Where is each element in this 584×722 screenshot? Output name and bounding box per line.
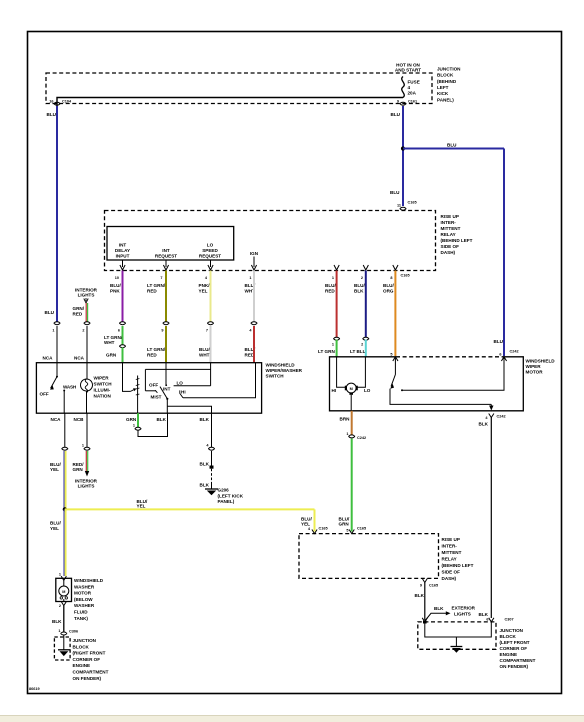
svg-text:YEL: YEL [199,289,208,294]
svg-text:7: 7 [160,276,162,280]
svg-text:BLU: BLU [494,339,504,344]
fuse F4 20A [402,77,405,98]
svg-text:C242: C242 [510,350,519,354]
wiper mode contact plate top bar [145,368,210,370]
relay IGN terminal label and lead [250,251,259,270]
svg-text:6: 6 [118,329,120,333]
wire BLU/ORG vertical to wiper motor pin 5 [394,271,396,357]
label INTERIOR LIGHTS destination [75,479,98,489]
svg-text:BLU/: BLU/ [110,283,121,288]
wire BLU/PNK label [110,283,121,294]
junction block JB2 dashed outline [418,622,496,649]
JB3 internal wire [63,635,65,650]
wiper mode contact plate left drop [144,369,146,390]
svg-text:1: 1 [249,276,251,280]
washer motor armature [59,580,69,601]
connector pin 1 symbol on BLU/RED right column [332,337,340,346]
svg-text:SIDE OF: SIDE OF [441,244,460,249]
svg-text:JUNCTION: JUNCTION [73,638,97,643]
wire BLU/WHT vertical [253,271,255,322]
wire NCA black stub into switch (lamp) [86,326,88,363]
rheostat resistor element [136,376,140,414]
wire BLU/RED lower label [245,347,256,358]
rheostat wiper arrow [131,389,135,391]
svg-text:OFF: OFF [40,392,49,397]
washer switch arm [51,377,57,389]
svg-text:BRN: BRN [340,417,351,422]
wire RED/GRN label [73,462,85,472]
svg-text:LT GRN/: LT GRN/ [147,283,166,288]
wire BLU/YEL two-tone vertical to washer motor [64,509,66,576]
svg-text:NCA: NCA [51,417,62,422]
connector C306 pin 1 [58,629,78,635]
svg-text:RELAY: RELAY [442,557,457,562]
wire BLU/BLK vertical [365,271,367,338]
svg-text:BLU/: BLU/ [50,521,61,526]
svg-text:REQUEST: REQUEST [199,254,221,259]
JB2 left pin square [422,618,427,622]
wire BLU/YEL drop to relay 2 pin 4 [314,509,316,531]
svg-text:CORNER OF: CORNER OF [73,657,101,662]
svg-text:9: 9 [420,584,422,588]
svg-text:1: 1 [133,424,135,428]
relay bottom pin numbers [115,276,393,280]
svg-text:WINDSHIELD: WINDSHIELD [266,363,296,368]
svg-text:C242: C242 [497,415,506,419]
wire BLU/WHT label (IGN feed) [245,283,256,294]
wire BLU/PNK vertical [122,271,124,322]
wire BLK from relay 2 to junction block [424,583,426,621]
label WIPER SWITCH ILLUMINATION [94,376,113,399]
svg-text:ENGINE: ENGINE [73,663,91,668]
wire BLU/YEL label below node [50,521,61,532]
svg-text:LEFT: LEFT [437,85,449,90]
wire BLU/GRN vertical to relay 2 [351,439,353,532]
washer motor pin 1 chevron [59,573,67,581]
wiper motor M armature [345,383,358,395]
switch common to ground link [167,399,211,413]
relay 2 pin 9 chevron [420,578,438,587]
svg-text:5: 5 [346,529,348,533]
ground G206 symbol [205,484,218,495]
branch to exterior lights [425,613,447,621]
wire BLK washer ground [63,606,65,632]
wire NCA black stub into switch (left) [56,326,58,363]
svg-text:INT: INT [162,248,170,253]
wire BLU/RED vertical [336,271,338,338]
svg-text:GRN: GRN [126,417,137,422]
connector row: pin 1 symbol on BLU [52,322,60,333]
svg-text:2: 2 [361,343,363,347]
svg-text:DASH): DASH) [442,576,457,581]
svg-text:BLU/: BLU/ [354,283,365,288]
label WINDSHIELD WIPER MOTOR [526,359,556,375]
wire bus inside JB1 [57,98,403,107]
svg-text:BLU/: BLU/ [325,283,336,288]
washer WASH contact and lead to bottom [63,390,65,414]
wiper switch illumination lamp [81,363,93,414]
svg-text:REQUEST: REQUEST [155,254,177,259]
svg-text:ILLUMI-: ILLUMI- [94,388,111,393]
svg-text:1: 1 [82,444,84,448]
svg-text:GRN/: GRN/ [73,306,85,311]
wire GRN into switch [122,348,124,363]
svg-text:HI: HI [181,390,186,395]
svg-text:RISE UP: RISE UP [442,537,460,542]
svg-text:EXTERIOR: EXTERIOR [452,606,476,611]
connector C242 pin 1 on BRN [346,432,366,440]
svg-text:C165: C165 [319,527,328,531]
svg-text:2: 2 [82,329,84,333]
relay pin lead INT REQUEST [163,260,168,270]
connector symbol on GRN wire [120,345,126,348]
label JUNCTION BLOCK (LEFT FRONT CORNER OF ENGINE COMPARTMENT ON FENDER) [500,628,536,669]
park switch feed lead from pin 5 [394,358,396,375]
svg-text:MIST: MIST [151,395,162,400]
svg-text:IGN: IGN [250,251,259,256]
svg-text:(BEHIND: (BEHIND [437,79,457,84]
connector C165 pin 11 symbol on relay [397,201,417,211]
svg-text:HI: HI [332,388,337,393]
svg-text:4: 4 [408,85,411,90]
svg-text:86619: 86619 [29,687,40,691]
svg-text:MITTENT: MITTENT [442,550,462,555]
node splice washer feed [63,507,67,511]
wire BLK stub below switch to ground [211,413,213,447]
label RISE UP INTERMITTENT RELAY 2 [442,537,474,581]
connector symbol on lamp ground pin 1 [82,444,90,451]
relay 2 pin 5 chevron [346,527,366,534]
svg-text:SPEED: SPEED [202,248,218,253]
wire BLU left vertical (C104 to washer switch connector) [56,106,58,322]
svg-text:SWITCH: SWITCH [94,382,113,387]
svg-text:BLK: BLK [354,289,364,294]
svg-text:RED: RED [147,289,157,294]
connector row: pin 2 symbol on GRN/RED [82,322,90,333]
svg-text:NCA: NCA [74,356,85,361]
svg-text:RED: RED [73,312,83,317]
wire BLU/YEL horizontal run to relay 2 [65,508,315,510]
svg-text:2: 2 [361,276,363,280]
label WINDSHIELD WASHER MOTOR (BELOW WASHER FLUID TANK) [74,578,104,621]
svg-text:INT: INT [163,387,171,392]
svg-text:LO: LO [177,380,184,385]
wire BLU/RED label [325,283,336,294]
svg-text:11: 11 [397,204,401,208]
wire LT GRN into wiper motor [336,340,338,358]
svg-text:C104: C104 [62,100,72,104]
shared ground wire dashed [211,469,213,484]
svg-text:LIGHTS: LIGHTS [78,484,95,489]
svg-text:BLK: BLK [434,606,444,611]
svg-text:BLOCK: BLOCK [73,644,90,649]
label EXTERIOR LIGHTS [452,606,476,617]
wire GRN/RED label [73,306,85,317]
svg-text:1: 1 [332,343,334,347]
junction block JB3 dashed outline [54,637,70,660]
svg-text:BLK: BLK [479,422,489,427]
windshield washer motor box [56,578,72,601]
svg-text:DASH): DASH) [441,250,456,255]
svg-text:20A: 20A [408,91,417,96]
label INT REQUEST [155,248,177,259]
svg-text:NCB: NCB [74,417,85,422]
connector symbol on GRN pin 1 [133,424,141,431]
svg-text:6: 6 [486,618,488,622]
connector row: pin 4 symbol on BLU/WHT [249,322,257,333]
label HOT IN ON AND START [395,63,421,73]
svg-text:1: 1 [59,573,61,577]
wire NCA stub below switch (wash output) [64,413,66,447]
svg-text:AND START: AND START [395,68,421,73]
svg-text:WINDSHIELD: WINDSHIELD [74,578,104,583]
svg-text:BLU: BLU [391,112,401,117]
svg-text:M: M [62,590,65,594]
svg-text:C306: C306 [69,630,78,634]
connector C242 below motor (BLK) [485,414,505,421]
LO contact bar [174,385,211,387]
JB2 right pin chevron C307 [486,618,513,622]
svg-text:DELAY: DELAY [115,248,130,253]
intermittent relay (behind left side of dash) dashed outline [105,211,436,271]
wire RED/GRN two-tone to interior lights [86,451,87,472]
svg-text:C165: C165 [357,527,366,531]
label WINDSHIELD WIPER/WASHER SWITCH [266,363,303,379]
svg-text:JUNCTION: JUNCTION [437,67,461,72]
svg-text:RED: RED [325,289,335,294]
svg-text:BLK: BLK [157,417,167,422]
label RISE UP INTERMITTENT RELAY [441,214,473,255]
svg-text:FUSE: FUSE [408,80,420,85]
motor ground exit arrow through case [490,404,492,406]
wiper motor pin 5 chevron [390,352,398,361]
svg-text:MOTOR: MOTOR [526,370,544,375]
svg-text:LIGHTS: LIGHTS [78,293,95,298]
svg-text:NATION: NATION [94,394,112,399]
arrow from interior lights into wire [84,298,88,303]
JB2 internal bus [425,622,492,637]
wire PNK/YEL vertical [210,271,212,322]
svg-text:SIDE OF: SIDE OF [442,570,461,575]
svg-text:YEL: YEL [50,467,59,472]
svg-text:ON FENDER): ON FENDER) [500,664,529,669]
intermittent relay 2 dashed outline [299,534,439,579]
wire LT GRN/RED into switch [165,326,167,363]
svg-text:9: 9 [161,329,163,333]
svg-text:GRN: GRN [106,353,117,358]
svg-text:BLK: BLK [52,619,62,624]
washer motor pin 2 chevron [59,602,67,609]
svg-text:SWITCH: SWITCH [266,374,285,379]
svg-text:BLK: BLK [479,612,489,617]
wire GRN stub below switch (illumination feed) [137,413,139,427]
wire LT GRN/RED label [147,283,166,294]
svg-text:YEL: YEL [301,522,310,527]
wire BLU/RED into switch [253,326,255,363]
svg-text:CORNER OF: CORNER OF [500,646,528,651]
svg-text:OFF: OFF [149,383,158,388]
svg-text:1: 1 [58,629,60,633]
wire BLK loop back into switch [138,413,168,436]
wire LT GRN/WHT short segment [122,326,124,345]
arrow to interior lights circuit [85,471,89,477]
splice square [210,466,214,469]
svg-text:BLK: BLK [415,593,425,598]
label G206 (LEFT KICK PANEL) [218,488,244,505]
connector row: pin 6 symbol on BLU/PNK [118,322,126,333]
svg-text:C165: C165 [401,274,410,278]
svg-text:WASH: WASH [63,385,77,390]
svg-text:GRN: GRN [339,522,350,527]
connector row: pin 7 symbol on PNK/YEL [206,322,214,333]
svg-text:WIPER: WIPER [526,364,542,369]
svg-text:1: 1 [52,329,54,333]
svg-text:(BEHIND LEFT: (BEHIND LEFT [441,238,473,243]
wire BLU/YEL drop label [301,517,312,527]
svg-text:BLK: BLK [200,462,210,467]
svg-text:KICK: KICK [437,91,449,96]
ground symbol in JB2 [451,647,463,653]
connector symbol on BLK pin 4 [206,444,214,451]
label JUNCTION BLOCK (RIGHT FRONT CORNER OF ENGINE COMPARTMENT ON FENDER) [73,638,109,681]
svg-text:2: 2 [59,604,61,608]
wire BLU horizontal branch to wiper motor [403,148,504,150]
park switch arm [391,375,395,387]
node splice on BLU [401,146,405,150]
windshield wiper motor box [330,357,524,411]
ground symbol in JB3 [58,650,70,656]
wire BLU/WHT into switch [210,326,212,363]
svg-text:LO: LO [207,243,214,248]
svg-text:(LEFT KICK: (LEFT KICK [218,494,244,499]
svg-text:TANK): TANK) [74,616,88,621]
motor LO brush lead [357,357,365,388]
svg-text:RISE UP: RISE UP [441,214,459,219]
svg-text:YEL: YEL [50,526,59,531]
svg-text:9: 9 [397,100,399,104]
wire BLU right vertical to wiper motor pin 6 [503,149,505,357]
HI feed line from BLU/RED [183,363,256,398]
svg-text:WHT: WHT [199,353,210,358]
washer switch common lead [56,363,58,377]
svg-text:WHT: WHT [104,340,115,345]
relay pin chevron BLU/ORG [393,265,398,270]
svg-text:WIPER: WIPER [94,376,110,381]
relay pin lead LO SPEED REQUEST [208,260,213,270]
connector row: pin 9 symbol on LT GRN/RED [161,322,169,333]
relay pin chevron BLU/RED [334,265,339,270]
wire BLU/BLK label [354,283,365,294]
svg-text:ON FENDER): ON FENDER) [73,676,102,681]
relay pin chevron BLU/BLK [363,265,368,270]
connector C104 pin 16 symbol [49,100,72,106]
svg-text:COMPARTMENT: COMPARTMENT [500,658,536,663]
svg-text:NCA: NCA [43,356,54,361]
wire BLU/YEL horizontal label [137,499,148,509]
connector pin 2 symbol on BLU/BLK right column [361,337,369,346]
svg-text:ENGINE: ENGINE [500,652,518,657]
wire LT GRN/RED vertical [165,271,167,322]
svg-text:1: 1 [346,432,348,436]
svg-text:WASHER: WASHER [74,584,95,589]
HI contact tick [180,390,183,397]
svg-text:MITTENT: MITTENT [441,226,461,231]
wiper mode switch feed (BLU/WHT) to contact plate [210,363,212,386]
wire BLK to splice [211,451,213,466]
svg-text:LO: LO [364,388,371,393]
svg-text:C307: C307 [505,618,514,622]
svg-text:BLK: BLK [200,417,210,422]
svg-text:5: 5 [390,352,392,356]
svg-text:YEL: YEL [137,504,146,509]
svg-text:C165: C165 [429,584,438,588]
label INTERIOR LIGHTS feed [75,288,98,298]
svg-text:BLU: BLU [390,190,400,195]
MIST contact tick [155,390,157,393]
wire BLU/GRN label [339,517,350,527]
wire BLU/YEL two-tone vertical to junction [64,451,66,509]
fuse value label [408,80,420,96]
svg-text:C242: C242 [357,436,366,440]
svg-text:G206: G206 [218,488,230,493]
wire LT GRN/WHT label [104,335,123,345]
wire BLU/YEL label [50,462,61,472]
wire BRN from motor common [351,411,353,435]
wire BLU fuse vertical to node [402,106,404,206]
OFF contact bar [145,390,155,392]
svg-text:1: 1 [332,276,334,280]
svg-text:JUNCTION: JUNCTION [500,628,524,633]
svg-text:16: 16 [49,100,53,104]
svg-text:BLU/: BLU/ [383,283,394,288]
svg-text:7: 7 [206,329,208,333]
svg-text:ORG: ORG [383,289,394,294]
wire PNK/YEL label [199,283,211,294]
park switch common to ground run [390,389,491,405]
wire LT GRN/RED lower label [147,347,166,358]
label LO SPEED REQUEST [199,243,221,259]
svg-text:RED: RED [147,353,157,358]
relay pin lead INT DELAY INPUT [120,260,125,270]
svg-text:PANEL): PANEL) [437,98,454,103]
svg-text:10: 10 [115,276,119,280]
svg-text:COMPARTMENT: COMPARTMENT [73,670,109,675]
connector C161 pin 9 symbol [397,100,417,106]
wiper motor pin 6 chevron [499,352,506,361]
svg-text:BLK: BLK [200,483,210,488]
svg-text:PNK/: PNK/ [199,283,211,288]
motor HI brush lead [337,357,346,388]
svg-text:LIGHTS: LIGHTS [454,612,471,617]
svg-text:(BEHIND LEFT: (BEHIND LEFT [442,563,474,568]
svg-text:FLUID: FLUID [74,610,88,615]
svg-text:LT GRN: LT GRN [318,349,335,354]
motor common lead to bottom [350,395,352,411]
svg-text:(BELOW: (BELOW [74,597,93,602]
label INT DELAY INPUT [115,243,130,259]
connector symbol on wash output [62,447,68,450]
svg-text:BLU/: BLU/ [199,347,210,352]
svg-text:6: 6 [499,352,501,356]
rheostat feed line from GRN [123,363,131,392]
svg-text:WIPER/WASHER: WIPER/WASHER [266,368,303,373]
wiper switch INT feed lead [165,363,167,385]
svg-text:BLU: BLU [47,112,57,117]
svg-text:C161: C161 [408,100,417,104]
label JUNCTION BLOCK (BEHIND LEFT KICK PANEL) [437,67,461,103]
bottom page strip [0,716,584,722]
junction block JB1 (behind left kick panel) dashed outline [46,73,432,104]
